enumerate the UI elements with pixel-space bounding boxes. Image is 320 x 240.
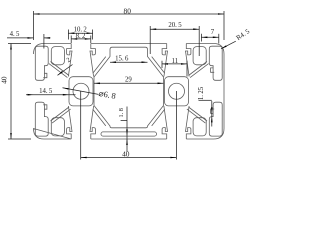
dimension 1.8 bottom web — [126, 107, 128, 153]
dimension 1.25 lip step — [211, 101, 213, 127]
dimension 29 central cavity — [94, 82, 164, 84]
corner void top-left — [51, 47, 64, 65]
svg-text:20. 5: 20. 5 — [168, 22, 182, 29]
central flare parallel walls — [93, 57, 106, 74]
dimension 20.5 — [150, 28, 199, 30]
svg-text:11: 11 — [172, 58, 179, 65]
closed side void right-upper — [209, 46, 222, 80]
svg-text:8. 2: 8. 2 — [76, 33, 86, 40]
svg-text:40: 40 — [0, 76, 9, 84]
svg-text:1. 25: 1. 25 — [198, 86, 205, 100]
svg-text:80: 80 — [124, 6, 132, 15]
T-slot top at x=20mm (opening 8.2) with lips and funnel walls — [67, 44, 72, 77]
T-slot bottom at x=60mm — [162, 106, 167, 139]
closed side void left-upper — [35, 46, 48, 80]
svg-text:7: 7 — [211, 29, 215, 36]
dimension 4.5 corner offset — [7, 37, 34, 39]
boss and core hole dia 6.8 left — [69, 77, 93, 106]
dimension 40 overall height — [10, 44, 12, 140]
corner void bottom-right — [193, 118, 206, 136]
diagonal rib top-left — [51, 62, 70, 76]
dimension 10.2 slot width — [68, 32, 92, 34]
central cavity (15.6 channel / 29 octagon / bottom shelf) — [94, 47, 164, 128]
dimension 80 overall width — [34, 13, 225, 15]
svg-text:1. 8: 1. 8 — [118, 107, 125, 117]
closed side void right-lower — [209, 102, 222, 136]
dimension 8.2 slot opening — [71, 38, 91, 40]
corner void top-right — [193, 47, 206, 65]
T-slot top at x=60mm — [162, 44, 167, 77]
dimensioned cross-section drawing of 40x80 aluminium extrusion profile — [0, 0, 255, 167]
svg-text:29: 29 — [125, 77, 132, 84]
svg-text:40: 40 — [122, 150, 130, 159]
diagonal rib top-right — [189, 62, 208, 76]
dimension 11 funnel width — [162, 63, 187, 65]
closed side void left-lower — [35, 102, 48, 136]
boss and core hole dia 6.8 right — [165, 77, 189, 106]
diagonal rib bottom-right — [189, 107, 208, 121]
diagonal rib bottom-left — [51, 107, 70, 121]
T-slot bottom at x=20mm — [67, 106, 72, 139]
outer profile boundary 80x40 with R4.5 corners and slot openings — [34, 44, 225, 140]
radius label R4.5 with leader — [221, 41, 236, 49]
dimension 40 hole spacing — [81, 157, 177, 159]
dimension 7 — [201, 36, 218, 38]
corner void bottom-left — [51, 118, 64, 136]
svg-text:14. 5: 14. 5 — [39, 88, 53, 95]
wall thickness label 2 with leader — [58, 65, 73, 76]
diameter label 6.8 with leader — [63, 88, 99, 95]
dimension 14.5 web length — [26, 94, 76, 96]
dimension 15.6 central channel — [110, 61, 148, 63]
svg-text:15. 6: 15. 6 — [115, 55, 129, 62]
svg-text:4. 5: 4. 5 — [10, 31, 20, 38]
